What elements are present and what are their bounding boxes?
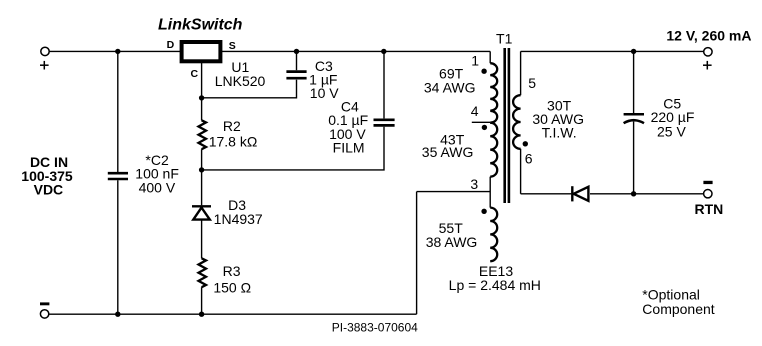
minus sign output [703,181,712,184]
junction R2/D3 node [199,167,204,172]
resistor R3 [199,258,207,287]
svg-text:38 AWG: 38 AWG [426,234,478,250]
phase dot winding 30T [523,141,528,146]
svg-text:R2: R2 [223,118,241,134]
wire winding link segment [489,177,491,208]
junction C5 top [631,49,636,54]
svg-text:6: 6 [525,150,533,166]
wire secondary pin5 [520,51,522,95]
svg-text:34 AWG: 34 AWG [424,80,476,96]
svg-text:C: C [191,68,199,80]
wire D3 bottom lead [201,220,203,259]
transformer T1 secondary winding 30T [513,95,521,149]
svg-text:D: D [167,39,175,51]
transformer T1 bias winding 55T [490,208,497,262]
wire top right rail [521,50,704,52]
svg-text:VDC: VDC [34,182,64,198]
wire C4 top [383,51,385,118]
capacitor C4 [374,120,395,126]
svg-text:S: S [229,40,236,52]
wire pin4 stub [472,121,490,123]
wire D4 to RTN [590,193,704,195]
svg-text:RTN: RTN [695,201,724,217]
phase dot winding 43T [482,125,487,130]
capacitor C2 [108,173,128,179]
wire R2 bottom lead [201,149,203,170]
svg-text:5: 5 [528,75,536,91]
transformer core [505,48,509,203]
svg-text:17.8 kΩ: 17.8 kΩ [209,133,258,149]
phase dot winding 69T [481,69,486,74]
wire D3 top lead [201,170,203,205]
junction C3 top [294,49,299,54]
plus sign output [703,61,712,70]
svg-text:150 Ω: 150 Ω [213,280,251,296]
wire C-pin to C3 bottom [202,80,297,98]
svg-text:35 AWG: 35 AWG [422,144,474,160]
plus sign input [40,61,49,70]
capacitor C5 (polarized) [624,114,644,123]
resistor R2 [199,120,207,149]
wire node to C4 bottom [202,127,384,170]
svg-text:FILM: FILM [333,139,365,155]
terminal + output [704,48,712,56]
wire C2 branch upper [117,51,119,172]
terminal + input [41,47,49,55]
diode D4 [572,186,588,201]
wire pin3 horizontal [417,191,491,193]
junction C2 bottom [115,312,120,317]
svg-text:LNK520: LNK520 [215,73,266,89]
wire C5 bottom lead [633,122,635,194]
terminal - input [40,310,48,318]
svg-text:400 V: 400 V [139,179,176,195]
svg-text:1N4937: 1N4937 [214,211,263,227]
wire top rail left [49,50,180,52]
wire bottom rail [49,313,417,315]
svg-text:Lp = 2.484 mH: Lp = 2.484 mH [449,277,541,293]
svg-text:3: 3 [470,176,478,192]
capacitor C3 [286,72,306,79]
svg-text:LinkSwitch: LinkSwitch [158,17,243,34]
svg-text:1: 1 [471,53,479,69]
junction C5 bottom [631,191,636,196]
wire U1 C pin [201,62,203,98]
wire top rail S to pin1 [222,50,490,52]
svg-text:10 V: 10 V [310,85,339,101]
svg-text:25 V: 25 V [657,124,686,140]
junction R3 bottom [199,312,204,317]
svg-text:PI-3883-070604: PI-3883-070604 [332,321,418,335]
svg-text:220 µF: 220 µF [651,109,695,125]
transformer T1 primary winding 43T [490,123,497,177]
svg-text:T1: T1 [496,31,513,47]
wire C5 top lead [633,51,635,113]
svg-text:4: 4 [471,103,479,119]
junction C4 top [381,49,386,54]
wire bias return vertical [416,192,418,315]
terminal RTN output [704,190,712,198]
transformer T1 primary winding 69T [490,63,497,122]
wire R2 top lead [201,98,203,120]
op-amp U1 LNK520 box [182,42,221,61]
phase dot winding 55T [481,209,486,214]
svg-text:R3: R3 [223,263,241,279]
minus sign input [40,302,49,305]
junction C2 top [115,49,120,54]
wire R3 bottom lead [201,287,203,314]
svg-text:12 V, 260 mA: 12 V, 260 mA [666,27,751,43]
wire C3 top [296,51,298,70]
junction C pin node [199,95,204,100]
wire C2 branch lower [117,180,119,314]
svg-text:Component: Component [642,301,714,317]
wire pin1 drop [489,51,491,63]
wire secondary pin6 [520,149,522,194]
wire secondary to D4 [521,193,572,195]
diode D3 [192,206,211,219]
svg-text:T.I.W.: T.I.W. [542,124,577,140]
